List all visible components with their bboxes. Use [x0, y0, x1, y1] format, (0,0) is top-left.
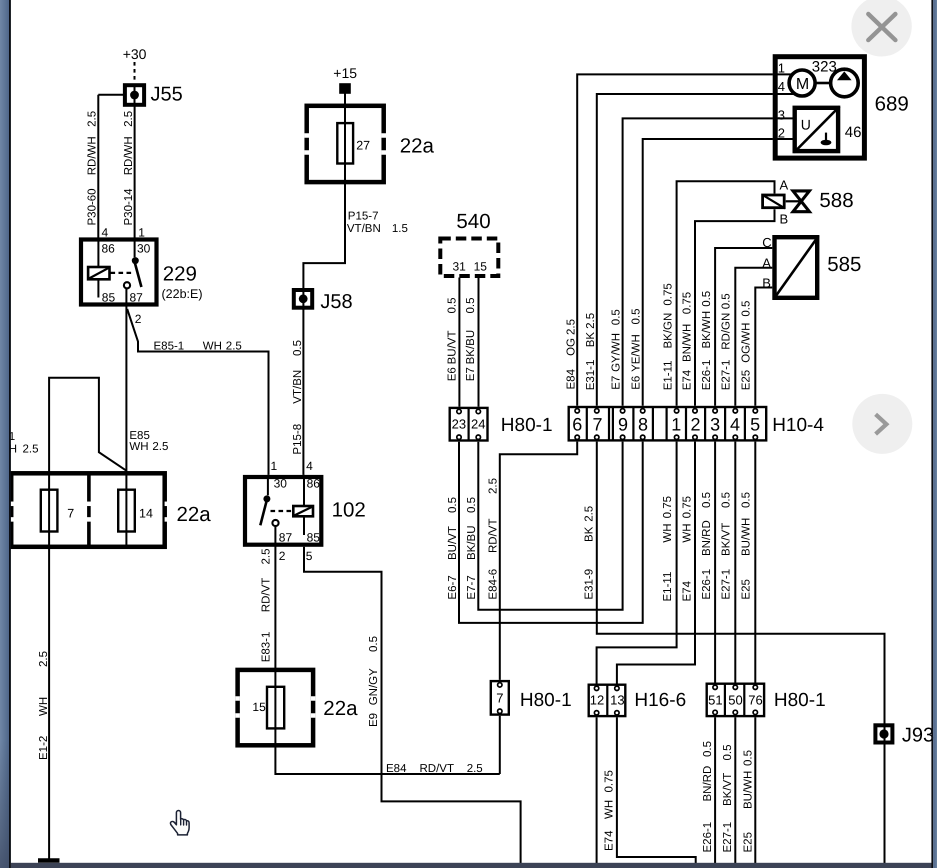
label E84-6 RD/VT 2.5 (rotated) — [488, 478, 500, 600]
wire E6 YE/WH (H10-4 pin8 to 689 pin2) — [643, 139, 773, 406]
svg-text:BN/WH: BN/WH — [682, 324, 694, 362]
svg-text:BK/VT: BK/VT — [722, 773, 734, 806]
svg-text:M: M — [796, 76, 809, 93]
wire below H80-1 pin76 — [754, 717, 756, 863]
svg-text:50: 50 — [728, 693, 742, 708]
svg-text:0.75: 0.75 — [662, 496, 674, 518]
svg-text:2.5: 2.5 — [584, 506, 596, 522]
solenoid valve 588 — [762, 191, 809, 212]
svg-text:7: 7 — [67, 507, 74, 521]
label E74 BN/WH 0.75 (rotated) — [682, 292, 694, 390]
svg-text:588: 588 — [819, 189, 853, 212]
wire J93 to bottom — [884, 745, 886, 864]
wire P30-14 RD/WH (J55 to relay229 pin1) — [134, 106, 136, 238]
label E26-1 BK/WH 0.5 (rotated) — [701, 291, 713, 391]
label E31-9 BK 2.5 (rotated) — [584, 506, 596, 600]
svg-text:E84-6: E84-6 — [488, 569, 500, 600]
svg-text:0.5: 0.5 — [447, 298, 459, 314]
svg-text:30: 30 — [274, 477, 288, 491]
label E74 WH 0.75 (rotated bottom) — [604, 770, 616, 851]
svg-text:0.5: 0.5 — [447, 497, 459, 513]
label E1-11 BK/GN 0.75 (rotated) — [663, 283, 675, 390]
svg-text:E27-1: E27-1 — [721, 569, 733, 600]
right border line — [931, 0, 933, 868]
wire below H80-1 pin50 — [734, 717, 736, 863]
svg-text:BK/VT: BK/VT — [721, 523, 733, 556]
svg-text:2.5: 2.5 — [488, 478, 500, 494]
svg-text:12: 12 — [590, 693, 604, 708]
wire branch E85-1 diagonal from pin87 — [127, 309, 268, 475]
svg-text:2: 2 — [778, 126, 785, 141]
svg-text:0.75: 0.75 — [682, 292, 694, 314]
svg-text:2.5: 2.5 — [123, 111, 135, 127]
label E25 OG/WH 0.5 (rotated) — [741, 301, 753, 391]
svg-text:0.5: 0.5 — [368, 636, 380, 652]
svg-text:0.5: 0.5 — [702, 741, 714, 757]
svg-text:+15: +15 — [333, 65, 357, 81]
svg-text:P30-14: P30-14 — [123, 188, 135, 226]
svg-text:E7: E7 — [611, 376, 623, 390]
label E6 BU/VT 0.5 (rotated) — [447, 298, 459, 382]
label E6-7 BU/VT 0.5 (rotated) — [447, 497, 459, 600]
svg-text:31: 31 — [453, 260, 467, 274]
svg-text:J55: J55 — [151, 84, 183, 106]
wire E1-2 WH down to ground — [48, 549, 50, 859]
label E9 GN/GY 0.5 (rotated) — [368, 636, 380, 727]
svg-text:E25: E25 — [741, 370, 753, 390]
label E26-1 BN/RD 0.5 (rotated bottom) — [702, 741, 714, 853]
svg-text:15: 15 — [252, 700, 266, 714]
svg-text:1: 1 — [271, 459, 278, 473]
close button — [851, 0, 911, 57]
battery node +15 — [339, 83, 351, 94]
wire E84 RD/VT bottom run — [275, 748, 499, 775]
svg-text:BK: BK — [584, 526, 596, 542]
svg-text:BK/BU: BK/BU — [466, 525, 478, 560]
wire E84 OG (H10-4 pin6 to 689 pin1) — [577, 74, 773, 405]
valve body 588 — [793, 191, 809, 201]
contact dot 229 (pin30) — [132, 257, 139, 264]
svg-text:2.5: 2.5 — [226, 341, 242, 353]
svg-text:0.5: 0.5 — [721, 492, 733, 508]
motor-pump link — [815, 82, 831, 85]
wire below H16-6 pin13 — [617, 717, 696, 863]
svg-text:0.5: 0.5 — [701, 492, 713, 508]
svg-text:7: 7 — [592, 414, 602, 434]
pins 12 13 — [590, 693, 625, 708]
wire relay229 internal pin86 to coil and 85 — [97, 238, 99, 298]
relay 229 — [81, 240, 157, 305]
svg-text:C: C — [762, 235, 771, 250]
svg-text:6: 6 — [572, 414, 582, 434]
svg-text:86: 86 — [307, 477, 321, 491]
svg-text:689: 689 — [875, 92, 909, 115]
svg-text:OG/WH: OG/WH — [741, 323, 753, 363]
wire E6-7 BU/VT (H80-1 pin23 to H10-4 pin8) — [459, 442, 643, 623]
svg-text:102: 102 — [332, 499, 366, 522]
label RD/VT 2.5 (rotated) — [261, 549, 273, 613]
wire 540 pin31 to H80-1 pin23 — [458, 278, 460, 407]
coil 588 — [763, 195, 785, 208]
wire E31-9 BK (H10-4 pin7 to J93) — [597, 442, 885, 745]
svg-text:5: 5 — [750, 414, 760, 434]
wire relay102 internal pin86 through coil to 85 — [303, 475, 305, 535]
svg-text:0.5: 0.5 — [722, 745, 734, 761]
svg-text:E7: E7 — [465, 367, 477, 381]
svg-text:85: 85 — [307, 531, 321, 545]
svg-text:WH: WH — [203, 341, 222, 353]
svg-text:E26-1: E26-1 — [701, 360, 713, 391]
svg-text:E25: E25 — [741, 579, 753, 599]
svg-text:(22b:E): (22b:E) — [162, 287, 203, 301]
connector H16-6 (12,13) — [589, 685, 626, 716]
wire relay102 internal pin1 to contact — [267, 475, 269, 495]
sensor 585 — [774, 236, 819, 299]
wire E27-1 BK/VT (H10-4 pin4 to H80-1 pin50) — [734, 442, 736, 683]
svg-text:E1-11: E1-11 — [662, 572, 674, 602]
svg-text:2.5: 2.5 — [585, 313, 597, 329]
wire E9 GN/GY (relay102 pin5 to bottom) — [304, 547, 521, 863]
svg-text:22a: 22a — [177, 503, 212, 526]
svg-text:WH: WH — [38, 697, 50, 716]
dashed link 229 — [111, 272, 132, 274]
svg-text:RD/WH: RD/WH — [123, 136, 135, 175]
wire E25 OG/WH (H10-4 pin5 to 585 pin B) — [755, 288, 772, 406]
left border line — [9, 0, 11, 868]
label E84 OG 2.5 (rotated) — [566, 319, 578, 390]
svg-text:585: 585 — [827, 253, 861, 276]
wire through J55 — [134, 84, 136, 106]
left window strip — [0, 0, 9, 868]
label E27-1 RD/GN 0.5 (rotated) — [721, 293, 733, 390]
svg-text:30: 30 — [137, 241, 151, 255]
svg-text:0.5: 0.5 — [292, 340, 304, 356]
svg-text:4: 4 — [730, 414, 740, 434]
svg-text:E7-7: E7-7 — [466, 575, 478, 599]
svg-text:0.75: 0.75 — [604, 770, 616, 792]
svg-text:BU/VT: BU/VT — [447, 526, 459, 560]
next (chevron) button — [852, 394, 912, 454]
label P15-7 / VT/BN 1.5 — [347, 211, 408, 236]
switch arm 229 — [135, 263, 142, 287]
wire +15 into fuse 27 — [344, 94, 346, 164]
label E85-1 WH 2.5 — [154, 341, 242, 353]
switch arm 102 — [260, 501, 266, 525]
wire 689 internal pin2 to U-box — [773, 138, 793, 140]
wire relay229 pin87 down to fuse 14 — [125, 289, 127, 549]
svg-text:5: 5 — [306, 549, 313, 563]
svg-text:RD/WH: RD/WH — [87, 136, 99, 175]
svg-text:J93: J93 — [902, 725, 934, 747]
label E85 / WH 2.5 — [129, 430, 168, 453]
H10-4 cell digits — [572, 414, 760, 434]
svg-text:P30-60: P30-60 — [87, 188, 99, 225]
wire P30-60 RD/WH (J55 to relay229 pin4) — [97, 95, 99, 238]
wire E26-1 BK/WH (H10-4 pin3 to 585 pin C) — [715, 248, 772, 406]
coil-valve link — [786, 200, 799, 202]
connector H10-4 (6,7,9,8,1,2,3,4,5) — [569, 407, 767, 440]
label E25 BU/WH 0.5 (rotated mid) — [741, 492, 753, 600]
wire E26-1 BN/RD (H10-4 pin3 to H80-1 pin51) — [714, 442, 716, 683]
svg-text:15: 15 — [474, 260, 488, 274]
svg-text:76: 76 — [748, 693, 762, 708]
svg-text:P15-7: P15-7 — [348, 211, 379, 223]
relay 102 — [245, 477, 321, 545]
svg-text:VT/BN: VT/BN — [347, 223, 381, 235]
ground bar E1-2 — [38, 858, 60, 863]
svg-text:WH: WH — [682, 523, 694, 542]
pump circle 323 — [831, 69, 859, 97]
svg-text:7: 7 — [496, 691, 503, 706]
svg-text:14: 14 — [139, 507, 153, 521]
svg-text:9: 9 — [618, 414, 628, 434]
svg-text:H80-1: H80-1 — [520, 690, 572, 711]
svg-text:229: 229 — [163, 263, 197, 286]
wire E1-11 BK/GN (H10-4 pin1 to 588 pin A) — [677, 181, 775, 406]
svg-text:2.5: 2.5 — [152, 441, 168, 453]
svg-text:+30: +30 — [123, 46, 147, 62]
svg-text:2.5: 2.5 — [566, 319, 578, 335]
svg-text:WH: WH — [129, 441, 148, 453]
svg-text:OG: OG — [566, 338, 578, 356]
svg-text:E26-1: E26-1 — [701, 569, 713, 600]
svg-text:2.5: 2.5 — [23, 443, 39, 455]
svg-text:2.5: 2.5 — [87, 111, 99, 127]
svg-text:2.5: 2.5 — [467, 763, 483, 775]
pump triangle — [837, 71, 852, 80]
svg-text:86: 86 — [102, 241, 116, 255]
connector J93 — [875, 725, 892, 742]
svg-text:BN/RD: BN/RD — [702, 766, 714, 802]
svg-text:3: 3 — [710, 414, 720, 434]
svg-text:E1-2: E1-2 — [38, 736, 50, 760]
wire E7 GY/WH (H10-4 pin9 to 689 pin3) — [623, 118, 773, 405]
label E1-2 WH 2.5 (rotated) — [38, 651, 50, 760]
wire below H16-6 pin12 — [596, 717, 598, 863]
svg-text:BU/WH: BU/WH — [741, 518, 753, 556]
svg-text:2: 2 — [135, 312, 142, 326]
svg-text:RD/VT: RD/VT — [420, 763, 455, 775]
contact dot 102 (pin30) — [263, 495, 270, 502]
svg-text:0.5: 0.5 — [465, 298, 477, 314]
wire E27-1 RD/GN (H10-4 pin4 to 585 pin A) — [735, 268, 772, 406]
svg-text:323: 323 — [812, 59, 837, 76]
svg-text:0.5: 0.5 — [741, 492, 753, 508]
wire E1-11 WH (H10-4 pin1 to H16-6 pin12) — [597, 442, 677, 684]
fuse 15 — [267, 687, 284, 729]
coil 229 — [88, 267, 109, 279]
svg-text:2.5: 2.5 — [38, 651, 50, 667]
svg-text:1: 1 — [778, 61, 785, 76]
label RD/WH 2.5 (right) — [123, 111, 135, 175]
label E27-1 BK/VT 0.5 (rotated bottom) — [722, 745, 734, 853]
svg-text:E74: E74 — [604, 830, 616, 851]
svg-text:87: 87 — [130, 291, 144, 305]
svg-text:8: 8 — [638, 414, 648, 434]
connector pins 23 24 — [452, 417, 486, 432]
wire E25 BU/WH (H10-4 pin5 to H80-1 pin76) — [754, 442, 756, 683]
svg-text:E83-1: E83-1 — [261, 632, 273, 663]
sender U-box 46 — [795, 108, 838, 151]
svg-text:U: U — [801, 116, 811, 132]
svg-text:4: 4 — [102, 225, 109, 239]
svg-text:1.5: 1.5 — [392, 223, 408, 235]
svg-text:E84: E84 — [566, 368, 578, 389]
svg-text:H16-6: H16-6 — [634, 690, 686, 711]
fuse 7 — [41, 490, 58, 532]
svg-text:22a: 22a — [323, 697, 358, 720]
svg-text:0.5: 0.5 — [741, 301, 753, 317]
svg-text:1: 1 — [138, 225, 145, 239]
fusebox 22a (15) — [235, 670, 315, 745]
svg-text:H80-1: H80-1 — [501, 415, 553, 436]
fuse 14 — [118, 490, 135, 532]
svg-text:B: B — [780, 212, 789, 227]
svg-text:RD/GN: RD/GN — [721, 313, 733, 350]
svg-text:J58: J58 — [320, 291, 352, 313]
svg-text:27: 27 — [356, 139, 370, 153]
svg-text:87: 87 — [279, 531, 293, 545]
svg-text:1: 1 — [671, 414, 681, 434]
svg-text:H80-1: H80-1 — [774, 690, 826, 711]
fusebox 22a (7,14) — [9, 473, 169, 547]
wire 689 internal pin4 to motor — [773, 93, 794, 95]
wire E74 WH (H10-4 pin2 to H16-6 pin13) — [617, 442, 695, 684]
node +30 dashed feed — [134, 62, 136, 82]
svg-text:E27-1: E27-1 — [721, 360, 733, 391]
label E7-7 BK/BU 0.5 (rotated) — [466, 497, 478, 600]
svg-text:B: B — [762, 276, 771, 291]
svg-text:BK/WH: BK/WH — [701, 311, 713, 349]
label E84 RD/VT 2.5 — [386, 763, 483, 775]
float symbol — [825, 133, 827, 141]
svg-text:E27-1: E27-1 — [722, 822, 734, 853]
motor M circle — [789, 70, 815, 96]
wire relay229 internal pin30 to contact — [134, 238, 136, 258]
pins 51 50 76 — [708, 693, 763, 708]
svg-text:BU/WH: BU/WH — [743, 771, 755, 809]
fusebox 22a (27) — [304, 106, 386, 182]
svg-text:4: 4 — [778, 79, 785, 94]
label RD/WH 2.5 (left) — [87, 111, 99, 175]
label E27-1 BK/VT 0.5 (rotated mid) — [721, 492, 733, 600]
svg-text:BN/RD: BN/RD — [701, 520, 713, 556]
svg-text:85: 85 — [102, 291, 116, 305]
label E7 BK/BU 0.5 (rotated) — [465, 298, 477, 382]
svg-text:13: 13 — [610, 693, 624, 708]
wire P15-7 VT/BN (fuse27 to J58) — [303, 164, 345, 311]
svg-text:RD/VT: RD/VT — [261, 578, 273, 613]
label E74 WH 0.75 (rotated mid) — [682, 496, 694, 601]
svg-text:BK/BU: BK/BU — [465, 330, 477, 365]
label clipped E1-1 / WH 2.5 (left edge) — [9, 431, 39, 455]
svg-text:51: 51 — [708, 693, 722, 708]
wire E7-7 BK/BU (H80-1 pin24 to H10-4 pin9) — [478, 442, 622, 610]
svg-text:E6: E6 — [631, 376, 643, 390]
svg-text:E6-7: E6-7 — [447, 575, 459, 599]
svg-text:BK/GN: BK/GN — [663, 313, 675, 349]
svg-text:22a: 22a — [400, 134, 435, 157]
svg-text:0.5: 0.5 — [721, 293, 733, 309]
wire 540 pin15 to H80-1 pin24 — [478, 278, 480, 407]
svg-text:E74: E74 — [682, 580, 694, 601]
svg-text:0.5: 0.5 — [466, 497, 478, 513]
svg-text:0.5: 0.5 — [611, 309, 623, 325]
svg-text:E1-11: E1-11 — [663, 360, 675, 390]
svg-text:23: 23 — [452, 417, 466, 432]
svg-text:3: 3 — [778, 107, 785, 122]
contact circle 102 (pin87) — [272, 520, 278, 526]
svg-text:WH: WH — [604, 800, 616, 819]
wire E85 loop top — [49, 378, 126, 549]
connector H80-1 (single pin 7) — [491, 681, 509, 715]
wire E84-6 RD/VT (H10-4 pin6 to H80-1 single pin7) — [500, 442, 577, 680]
label E6 YE/WH 0.5 (rotated) — [631, 309, 643, 390]
svg-text:BK: BK — [585, 332, 597, 348]
wire E31-1 BK (H10-4 pin7 to 689 pin4) — [597, 94, 773, 406]
connector H80-1 (51,50,76) — [707, 684, 764, 716]
svg-text:GN/GY: GN/GY — [368, 668, 380, 705]
wire H80-1 pin7 down to E84 run — [499, 716, 501, 774]
fuse 27 — [337, 123, 353, 163]
svg-text:0.5: 0.5 — [631, 309, 643, 325]
svg-text:E74: E74 — [682, 369, 694, 390]
wire 689 internal pin3 to U-box — [773, 117, 793, 119]
svg-text:E85-1: E85-1 — [154, 341, 185, 353]
wire relay102 pin87 via fuse15 — [274, 527, 276, 748]
wire J55 left stub — [98, 94, 124, 96]
svg-text:H10-4: H10-4 — [772, 415, 824, 436]
svg-text:46: 46 — [845, 124, 862, 141]
svg-text:RD/VT: RD/VT — [488, 519, 500, 554]
svg-text:0.5: 0.5 — [743, 750, 755, 766]
control unit 540 (dashed) — [440, 239, 498, 277]
svg-text:A: A — [762, 255, 771, 270]
wire P15-8 VT/BN (J58 to relay102 pin4) — [302, 310, 304, 475]
svg-text:24: 24 — [471, 417, 485, 432]
svg-text:540: 540 — [456, 210, 490, 233]
svg-text:0.5: 0.5 — [701, 291, 713, 307]
svg-text:0.75: 0.75 — [663, 283, 675, 305]
svg-text:VT/BN: VT/BN — [292, 370, 304, 404]
bottom navy bar — [11, 863, 932, 868]
contact circle 229 (pin87) — [124, 282, 130, 288]
svg-text:E31-1: E31-1 — [585, 360, 597, 391]
coil 102 — [293, 506, 313, 516]
wire E74 BN/WH (H10-4 pin2 to 588 pin B) — [695, 209, 775, 406]
svg-text:E84: E84 — [386, 763, 407, 775]
component 689 (fuel pump unit) — [775, 57, 864, 158]
svg-text:YE/WH: YE/WH — [631, 334, 643, 372]
label E26-1 BN/RD 0.5 (rotated mid) — [701, 492, 713, 600]
svg-text:2.5: 2.5 — [261, 549, 273, 565]
svg-text:2: 2 — [279, 549, 286, 563]
svg-text:E31-9: E31-9 — [584, 569, 596, 600]
svg-text:GY/WH: GY/WH — [611, 333, 623, 372]
svg-text:A: A — [780, 178, 789, 193]
svg-text:E25: E25 — [743, 832, 755, 852]
svg-text:E26-1: E26-1 — [702, 822, 714, 853]
wire below H80-1 pin51 — [714, 717, 716, 863]
label P15-8 VT/BN 0.5 (rotated) — [292, 340, 304, 455]
hand cursor — [170, 811, 189, 835]
connector H80-1 (23,24) — [450, 408, 488, 441]
wire 689 internal pin1 to motor — [773, 73, 792, 75]
svg-text:WH: WH — [662, 523, 674, 542]
svg-text:E9: E9 — [368, 713, 380, 727]
label E25 BU/WH 0.5 (rotated bottom) — [743, 750, 755, 853]
right window strip — [933, 0, 937, 868]
